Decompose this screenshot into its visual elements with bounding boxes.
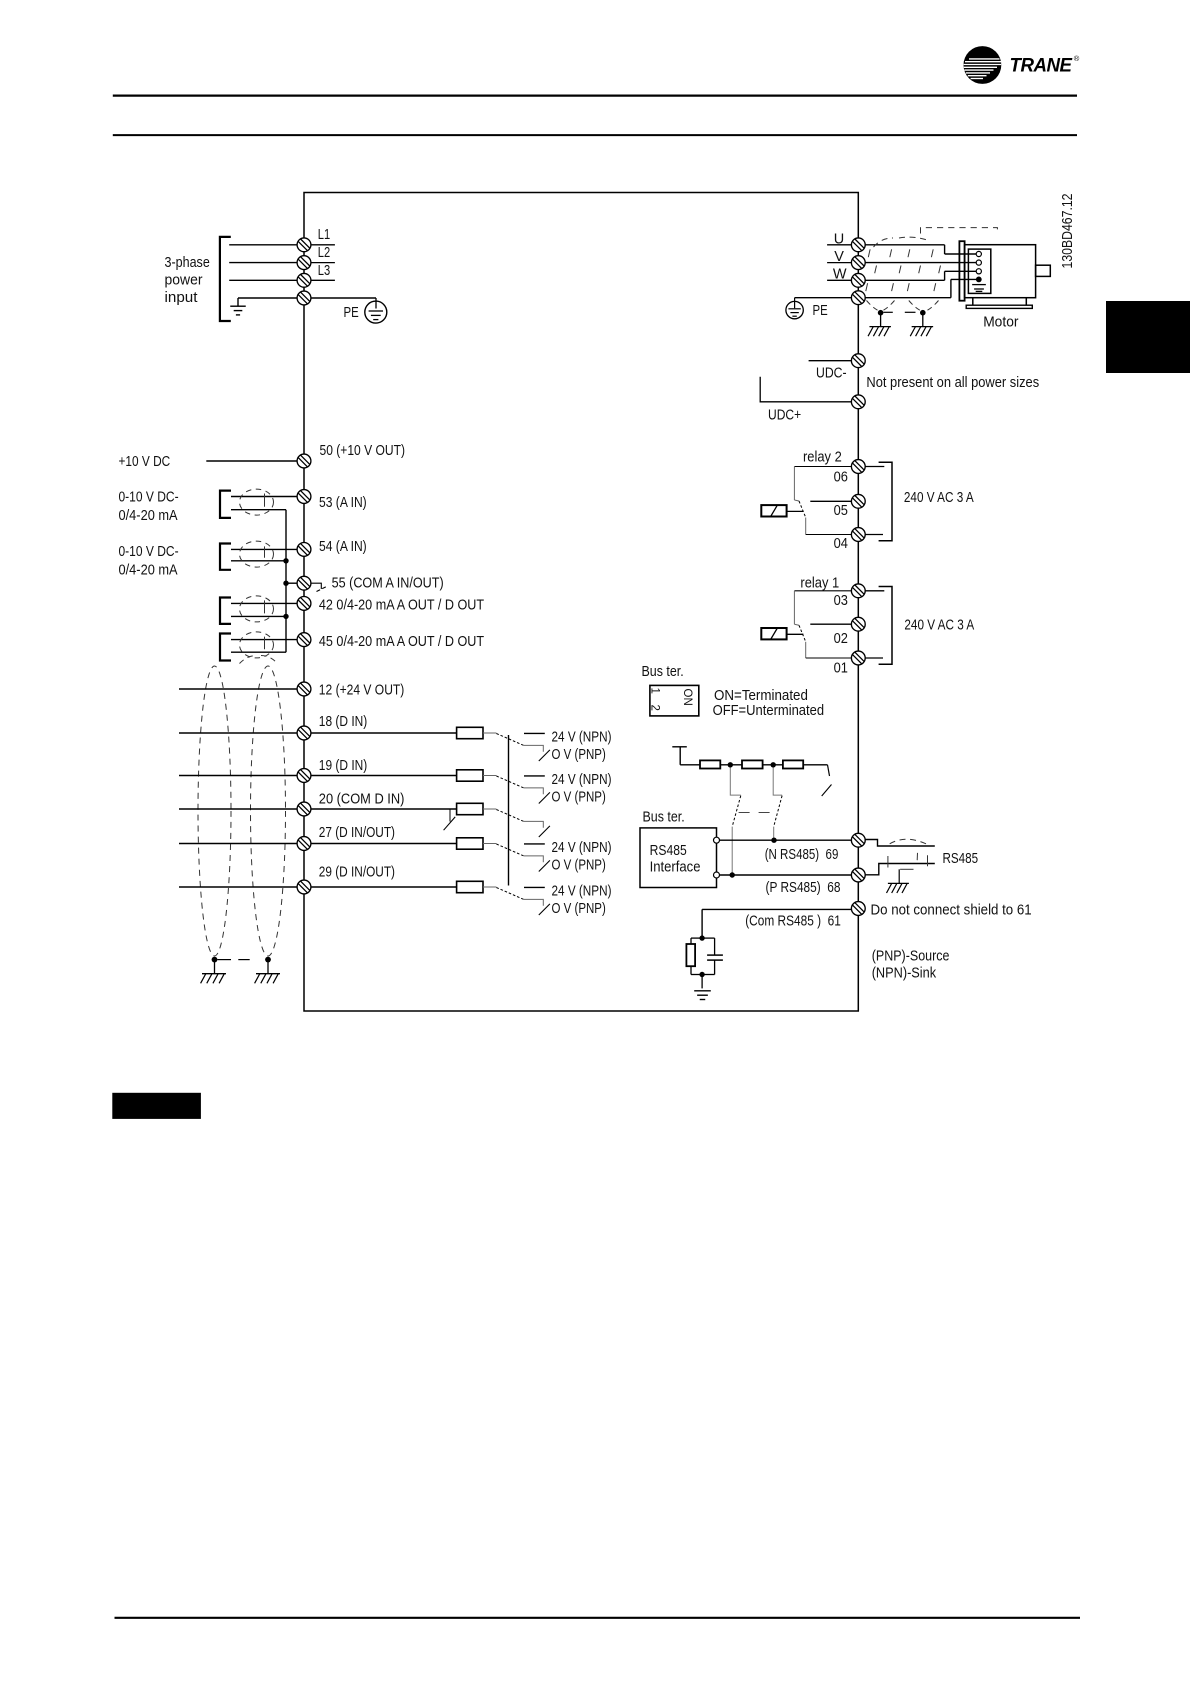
terminal L1 — [297, 238, 311, 252]
svg-text:Not present on all power sizes: Not present on all power sizes — [866, 375, 1039, 391]
relay 1 contacts — [794, 590, 851, 592]
wire 27 left — [179, 843, 298, 845]
svg-text:UDC+: UDC+ — [768, 408, 801, 424]
contact 24V — [524, 732, 545, 734]
switch pole — [496, 776, 523, 788]
svg-text:relay 1: relay 1 — [800, 576, 839, 592]
switch blade 0V — [539, 826, 550, 837]
wire W to motor — [865, 279, 945, 281]
pointer 55 — [311, 583, 321, 589]
relay 1 contacts load bracket — [865, 590, 884, 592]
input resistor — [311, 732, 457, 734]
shield drain dot B — [265, 957, 271, 963]
cable shield ellipse B — [251, 666, 286, 956]
chassis ground motor 2 — [912, 326, 934, 328]
label V — [827, 262, 851, 264]
cable shield ellipse A — [198, 666, 231, 956]
input resistor — [311, 775, 457, 777]
bottom rule — [115, 1617, 1081, 1619]
wire AO45 top — [231, 639, 298, 641]
relay 2 contacts — [794, 466, 851, 468]
svg-text:ON: ON — [681, 689, 693, 706]
svg-text:55 (COM A IN/OUT): 55 (COM A IN/OUT) — [332, 576, 444, 592]
bracket AO42 — [220, 598, 231, 624]
svg-text:(PNP)-Source: (PNP)-Source — [872, 948, 950, 964]
bracket AO45 — [220, 634, 231, 661]
svg-text:V: V — [834, 249, 844, 265]
shield AI54 — [240, 541, 274, 567]
svg-text:04: 04 — [834, 536, 848, 552]
motor cable shield dashes — [866, 228, 998, 311]
junction dot R2/R3 — [771, 762, 776, 767]
svg-text:Interface: Interface — [650, 860, 701, 876]
terminal 45 — [297, 633, 311, 647]
wire U to motor — [865, 244, 945, 246]
svg-text:RS485: RS485 — [650, 843, 687, 859]
svg-text:(N RS485) 69: (N RS485) 69 — [765, 847, 839, 863]
top rule 2 — [113, 134, 1077, 136]
svg-text:20 (COM D IN): 20 (COM D IN) — [319, 792, 405, 808]
terminal 19 — [297, 769, 311, 783]
RC network junction top — [699, 935, 704, 940]
svg-text:45 0/4-20 mA A OUT / D OUT: 45 0/4-20 mA A OUT / D OUT — [319, 634, 484, 650]
wire 20 left — [179, 808, 298, 810]
svg-text:2: 2 — [649, 705, 661, 711]
svg-text:42 0/4-20 mA A OUT / D OUT: 42 0/4-20 mA A OUT / D OUT — [319, 598, 484, 614]
input resistor — [311, 886, 457, 888]
terminal relay 2 contacts mid — [851, 494, 865, 508]
connector circle 69 — [714, 837, 720, 843]
shield AO45 — [240, 632, 274, 658]
wire L1 — [229, 244, 297, 246]
svg-text:RS485: RS485 — [943, 851, 979, 867]
contact 24V — [524, 775, 545, 777]
wire AI54 top — [231, 548, 298, 550]
terminal U — [851, 238, 865, 252]
RC junction bottom — [699, 972, 704, 977]
terminal V — [851, 256, 865, 270]
switch blade 0V — [539, 792, 550, 803]
svg-text:0/4-20 mA: 0/4-20 mA — [119, 508, 178, 524]
contact 24V — [524, 843, 545, 845]
svg-text:03: 03 — [834, 593, 848, 609]
PNP/NPN bus vertical — [508, 735, 510, 886]
RS485 interface box — [640, 828, 717, 888]
svg-text:O V (PNP): O V (PNP) — [552, 901, 606, 917]
terminal W — [851, 273, 865, 287]
shield entry arcs — [240, 656, 258, 664]
wire V to motor — [865, 262, 977, 264]
wire AI53 top — [231, 496, 298, 498]
termination switch right — [773, 768, 782, 796]
PE earth symbol right — [795, 297, 852, 299]
terminal 55 — [297, 576, 311, 590]
svg-text:O V (PNP): O V (PNP) — [552, 790, 606, 806]
wire L3 — [229, 279, 297, 281]
terminal L3 — [297, 273, 311, 287]
svg-text:(NPN)-Sink: (NPN)-Sink — [872, 966, 937, 982]
svg-text:L3: L3 — [318, 263, 330, 279]
motor body — [965, 245, 1036, 298]
svg-text:130BD467.12: 130BD467.12 — [1059, 194, 1076, 269]
drain down B — [267, 960, 269, 974]
svg-text:54 (A IN): 54 (A IN) — [319, 539, 367, 555]
svg-text:UDC-: UDC- — [816, 365, 847, 381]
relay 2 contacts coil — [761, 505, 786, 516]
shield drain link dash — [238, 959, 249, 961]
DIP switch box — [650, 685, 699, 716]
terminal relay 1 contacts top — [851, 584, 865, 598]
switch pole — [496, 844, 523, 856]
svg-text:W: W — [833, 267, 847, 283]
drive enclosure box — [304, 193, 858, 1012]
svg-text:240 V AC 3 A: 240 V AC 3 A — [904, 617, 974, 633]
terminal relay 1 contacts bot — [851, 651, 865, 665]
junction dot 69 — [771, 838, 776, 843]
terminal 68 — [851, 868, 865, 882]
svg-text:240 V AC 3 A: 240 V AC 3 A — [904, 490, 974, 506]
svg-text:Do not connect shield to 61: Do not connect shield to 61 — [871, 902, 1032, 918]
wire UDC- stub — [809, 360, 852, 362]
svg-text:1: 1 — [649, 688, 661, 694]
wire AO42 bottom — [231, 615, 286, 617]
svg-text:Bus ter.: Bus ter. — [642, 664, 684, 680]
resistor R3 — [783, 760, 803, 768]
svg-text:PE: PE — [813, 303, 828, 319]
motor terminal box — [968, 249, 990, 293]
junction dot 54 — [283, 558, 288, 563]
label L1 — [311, 244, 335, 246]
connector circle 68 — [714, 872, 720, 878]
wire AI53 bottom — [231, 509, 286, 511]
svg-text:05: 05 — [834, 503, 848, 519]
label L3 — [311, 279, 335, 281]
wire 55 — [286, 582, 298, 584]
wire 69 out — [865, 840, 935, 847]
svg-text:relay 2: relay 2 — [803, 450, 842, 466]
terminal PE input — [297, 291, 311, 305]
label U — [827, 244, 851, 246]
svg-text:O V (PNP): O V (PNP) — [552, 858, 606, 874]
svg-text:L2: L2 — [318, 245, 330, 261]
switch pole — [496, 734, 523, 746]
termination switch left — [730, 768, 741, 796]
wire UDC+ — [760, 377, 851, 402]
page edge tab — [1106, 301, 1190, 373]
svg-text:12 (+24 V OUT): 12 (+24 V OUT) — [319, 682, 405, 698]
svg-text:02: 02 — [834, 631, 848, 647]
bracket AI53 — [220, 491, 231, 518]
terminal PE right — [851, 291, 865, 305]
svg-text:Bus ter.: Bus ter. — [643, 810, 685, 826]
motor shield bond dot 2 — [920, 310, 926, 316]
DIN27 mode switch — [449, 809, 451, 821]
chassis ground RS485 — [888, 882, 909, 884]
svg-text:®: ® — [1074, 54, 1080, 63]
resistor R2 — [742, 760, 763, 768]
resistor R1 — [700, 760, 720, 768]
chassis ground motor 1 — [869, 326, 891, 328]
svg-text:18 (D IN): 18 (D IN) — [319, 714, 368, 730]
wire PE input — [238, 297, 298, 299]
svg-text:+10 V DC: +10 V DC — [119, 454, 171, 470]
svg-text:Motor: Motor — [983, 314, 1018, 330]
shield AO42 — [240, 596, 274, 622]
svg-text:L1: L1 — [318, 227, 330, 243]
svg-text:ON=Terminated: ON=Terminated — [714, 688, 808, 704]
junction dot 42 — [283, 614, 288, 619]
wire AO45 bottom — [231, 651, 286, 653]
wire 68 — [720, 874, 852, 876]
svg-text:50 (+10 V OUT): 50 (+10 V OUT) — [320, 443, 406, 459]
bond down 2 — [922, 313, 924, 327]
svg-text:3-phase: 3-phase — [165, 255, 210, 271]
wire 69 — [720, 839, 852, 841]
svg-text:0-10 V DC-: 0-10 V DC- — [119, 544, 179, 560]
motor terminal circles — [976, 251, 981, 256]
switch blade R3 — [822, 785, 832, 797]
switch pole — [496, 888, 523, 900]
terminal 61 — [851, 902, 865, 916]
RC capacitor branch — [702, 937, 715, 939]
svg-text:0/4-20 mA: 0/4-20 mA — [119, 563, 178, 579]
junction dot 55 — [283, 581, 288, 586]
RC resistor branch — [691, 937, 702, 939]
TRANE logo — [964, 46, 1080, 84]
wire 18 left — [179, 732, 298, 734]
terminal relay 2 contacts bot — [851, 528, 865, 542]
top rule 1 — [113, 94, 1077, 96]
terminal L2 — [297, 256, 311, 270]
svg-text:06: 06 — [834, 469, 848, 485]
svg-text:24 V (NPN): 24 V (NPN) — [552, 730, 612, 746]
terminal 29 — [297, 880, 311, 894]
shield AI53 — [240, 489, 274, 515]
terminal 20 — [297, 802, 311, 816]
motor shaft — [1036, 265, 1051, 276]
svg-text:(Com RS485 ) 61: (Com RS485 ) 61 — [745, 914, 841, 930]
motor ground — [972, 284, 986, 286]
switch blade 0V — [539, 750, 550, 761]
terminal 54 — [297, 543, 311, 557]
svg-text:PE: PE — [344, 305, 359, 321]
RC ground drop — [701, 975, 703, 989]
motor base — [972, 298, 974, 306]
svg-text:U: U — [834, 232, 844, 248]
bond down 1 — [880, 313, 882, 327]
switch blade 0V — [539, 860, 550, 871]
wire after R3 — [803, 764, 827, 766]
svg-text:24 V (NPN): 24 V (NPN) — [552, 772, 612, 788]
RS485 cable shield — [888, 839, 928, 869]
svg-text:input: input — [165, 290, 198, 306]
label L2 — [311, 262, 335, 264]
termination T bar — [672, 746, 687, 748]
gang dashes — [739, 812, 772, 814]
terminal 42 — [297, 597, 311, 611]
terminal 50 — [297, 454, 311, 468]
svg-text:0-10 V DC-: 0-10 V DC- — [119, 490, 179, 506]
svg-text:01: 01 — [834, 661, 848, 677]
redaction bar bottom-left — [112, 1093, 201, 1119]
bracket AI54 — [220, 544, 231, 570]
wire AO42 top — [231, 602, 298, 604]
terminal UDC+ — [851, 395, 865, 409]
svg-text:(P RS485) 68: (P RS485) 68 — [766, 880, 841, 896]
RS485 shield ground drop — [898, 869, 900, 883]
drain down A — [214, 960, 216, 974]
relay 1 contacts coil — [761, 628, 786, 639]
terminal 69 — [851, 833, 865, 847]
wire 68 out — [865, 864, 935, 875]
svg-text:24 V (NPN): 24 V (NPN) — [552, 884, 612, 900]
svg-text:TRANE: TRANE — [1010, 55, 1073, 77]
wire 19 left — [179, 775, 298, 777]
wire +10V — [206, 460, 297, 462]
analog common vertical — [285, 510, 287, 653]
chassis ground A — [202, 973, 226, 975]
switch blade 0V — [539, 904, 550, 915]
switch pole — [496, 810, 523, 822]
ground symbol input — [230, 305, 246, 307]
motor connector plate — [959, 241, 964, 301]
terminal UDC- — [851, 354, 865, 368]
input bracket — [220, 237, 231, 321]
terminal 27 — [297, 837, 311, 851]
motor shield link dash — [905, 311, 916, 313]
PE earth symbol left — [311, 297, 376, 299]
wire AI54 bottom — [231, 560, 286, 562]
terminal relay 1 contacts mid — [851, 617, 865, 631]
wire 61 — [702, 908, 851, 910]
svg-text:53 (A IN): 53 (A IN) — [319, 495, 367, 511]
relay 2 contacts load bracket — [865, 466, 884, 468]
label W — [827, 279, 851, 281]
shield drain dot A — [212, 957, 218, 963]
contact 24V — [524, 886, 545, 888]
svg-text:O V (PNP): O V (PNP) — [552, 747, 606, 763]
input resistor — [311, 808, 457, 810]
wire L2 — [229, 262, 297, 264]
terminal 53 — [297, 490, 311, 504]
junction dot R1/R2 — [728, 762, 733, 767]
junction dot 68 — [730, 872, 735, 877]
motor shield bond dot 1 — [878, 310, 884, 316]
chassis ground B — [256, 973, 280, 975]
terminal 18 — [297, 726, 311, 740]
terminal 12 — [297, 682, 311, 696]
input resistor — [311, 843, 457, 845]
svg-text:19 (D IN): 19 (D IN) — [319, 758, 368, 774]
svg-text:power: power — [165, 273, 203, 289]
svg-text:27 (D IN/OUT): 27 (D IN/OUT) — [319, 825, 395, 841]
ground symbol RC — [694, 990, 711, 992]
svg-text:29 (D IN/OUT): 29 (D IN/OUT) — [319, 864, 395, 880]
svg-text:24 V (NPN): 24 V (NPN) — [552, 840, 612, 856]
svg-text:OFF=Unterminated: OFF=Unterminated — [713, 703, 825, 719]
wire 29 left — [179, 886, 298, 888]
wire PE to motor — [865, 297, 951, 299]
terminal relay 2 contacts top — [851, 460, 865, 474]
wire 12 left — [179, 688, 298, 690]
